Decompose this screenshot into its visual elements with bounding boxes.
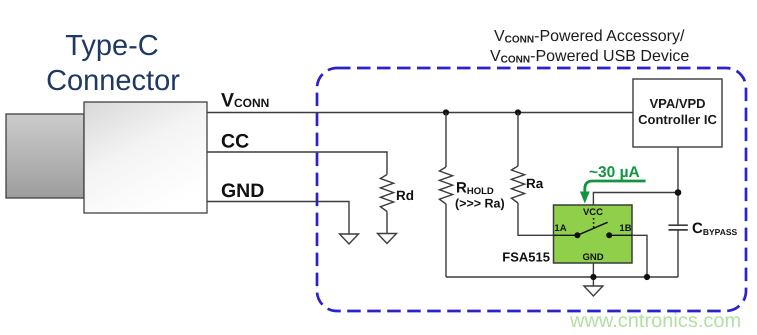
svg-text:GND: GND (582, 252, 603, 263)
connector body (84, 102, 207, 213)
svg-text:www.cntronics.com: www.cntronics.com (569, 310, 741, 332)
current arrowhead (580, 192, 590, 204)
svg-text:1A: 1A (554, 223, 566, 234)
IC box VPA/VPD Controller (633, 79, 722, 147)
wire RHOLD upper lead (445, 113, 447, 168)
wire VCC rail (593, 193, 678, 206)
wire VCONN rail (207, 112, 633, 114)
svg-text:VCC: VCC (583, 207, 603, 218)
current arrow (585, 181, 646, 192)
switch IC FSA515 body (554, 205, 633, 263)
wire VPA/VPD to capacitor (677, 147, 679, 225)
wire CC (207, 152, 387, 175)
svg-text:CC: CC (221, 131, 249, 153)
wire Ra to pin 1A (518, 203, 554, 235)
node junction GND pin / rail (590, 274, 596, 280)
svg-text:~30 µA: ~30 µA (589, 164, 640, 181)
svg-text:GND: GND (221, 180, 264, 202)
node junction 1B / rail (644, 274, 650, 280)
node junction VCC rail / capacitor (675, 189, 682, 196)
svg-text:1B: 1B (619, 223, 631, 234)
switch lever (577, 222, 607, 235)
svg-text:(>>> Ra): (>>> Ra) (455, 197, 505, 211)
wire Rd lower lead (386, 212, 388, 234)
ground symbol (FSA515) (584, 286, 603, 296)
wire GND (207, 202, 349, 235)
Type-C Connector title (46, 30, 180, 97)
control dotted line (593, 218, 595, 228)
ground symbol (GND wire) (340, 234, 359, 244)
switch contact A (574, 232, 580, 238)
label VPA/VPD Controller IC (638, 96, 717, 127)
wire RHOLD lower lead (445, 204, 447, 277)
wire pin 1A internal (554, 234, 578, 236)
resistor RHOLD (439, 167, 452, 204)
svg-text:Ra: Ra (526, 176, 544, 191)
ground symbol (Rd) (378, 234, 397, 244)
switch contact B (606, 232, 612, 238)
capacitor CBYPASS (668, 225, 687, 230)
svg-text:Connector: Connector (46, 65, 180, 97)
wire GND pin lead (592, 263, 594, 286)
wire Ra upper lead (517, 113, 519, 167)
resistor Rd (380, 175, 393, 212)
resistor Ra (511, 166, 524, 203)
wire capacitor lower lead (677, 230, 679, 277)
svg-text:Controller IC: Controller IC (638, 112, 717, 127)
dashed accessory boundary box (317, 68, 746, 311)
node junction VCONN / RHOLD (443, 109, 449, 115)
node junction VCONN / Ra (515, 109, 521, 115)
wire pin 1B to ground rail (632, 235, 647, 277)
connector plug barrel (6, 114, 84, 198)
ground rail (446, 276, 678, 278)
title VCONN-Powered Accessory (490, 28, 689, 66)
wire pin 1B internal (609, 234, 632, 236)
svg-text:Rd: Rd (396, 188, 414, 203)
svg-text:Type-C: Type-C (65, 30, 158, 62)
svg-text:VPA/VPD: VPA/VPD (649, 96, 705, 111)
svg-text:FSA515: FSA515 (502, 250, 550, 265)
